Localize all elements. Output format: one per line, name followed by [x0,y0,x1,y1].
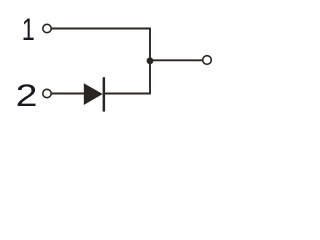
junction node [147,57,154,64]
terminal output [203,56,212,65]
terminal pin 2 [43,89,51,97]
wire diode cathode to vertical bus [105,93,151,95]
svg-text:1: 1 [22,12,35,47]
diode D1 cathode bar [103,77,106,111]
diode D1 triangle (anode) [84,83,103,105]
terminal pin 1 [43,24,51,32]
wire vertical bus [149,28,151,94]
wire output horizontal [150,59,203,61]
wire pin1 horizontal [52,28,151,30]
wire pin2 to diode anode [52,93,85,95]
svg-text:2: 2 [16,78,38,114]
